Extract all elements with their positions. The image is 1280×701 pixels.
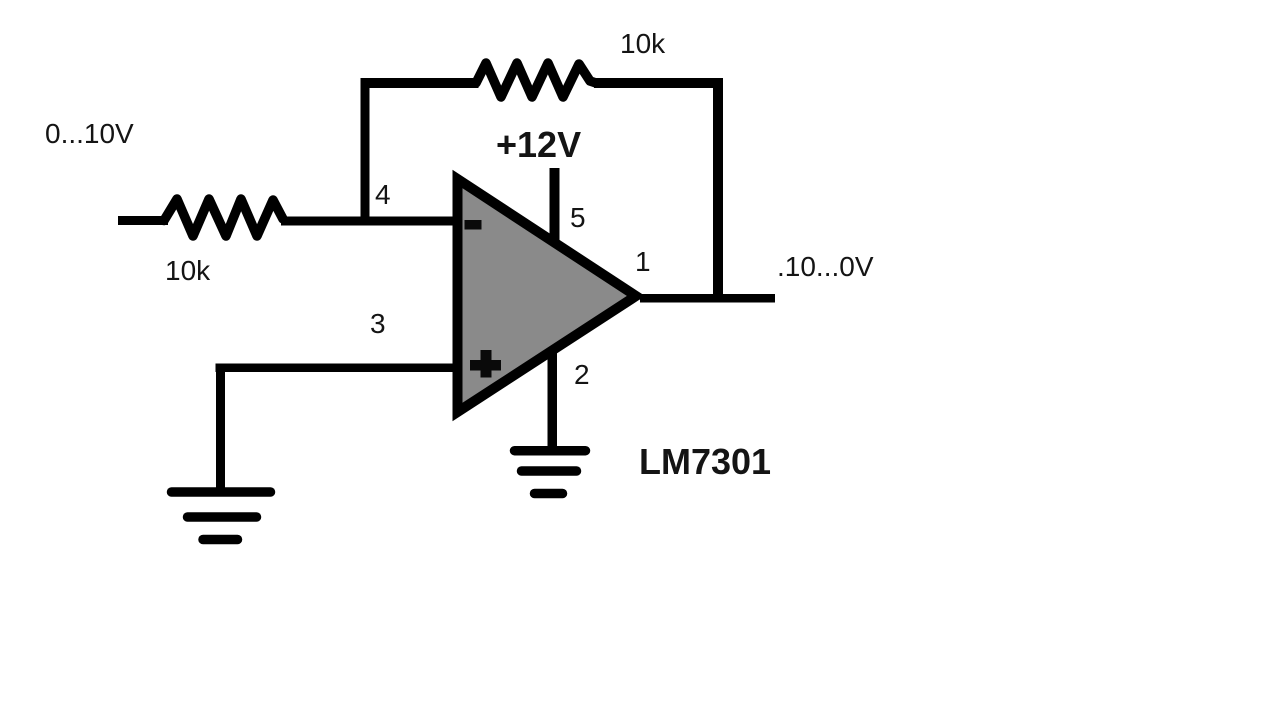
op-amp non-inverting input plus symbol — [470, 360, 501, 371]
resistor R2 10k feedback zigzag — [476, 63, 596, 97]
svg-text:4: 4 — [375, 179, 391, 210]
wire: feedback top right segment — [594, 78, 723, 88]
op-amp U1 LM7301 triangle body — [458, 179, 637, 412]
svg-text:5: 5 — [570, 202, 586, 233]
op-amp inverting input minus symbol — [465, 220, 482, 230]
wire: input left segment — [118, 216, 168, 225]
wire: pin 3 down to ground — [216, 364, 225, 488]
svg-text:+12V: +12V — [496, 124, 581, 165]
wire: feedback right vertical — [713, 78, 723, 302]
svg-text:0...10V: 0...10V — [45, 118, 134, 149]
svg-text:3: 3 — [370, 308, 386, 339]
svg-text:10k: 10k — [620, 28, 666, 59]
ground symbol at op-amp pin 2 — [515, 451, 586, 494]
wire: R1 to op-amp inverting input (pin 4 net) — [281, 217, 456, 226]
wire: pin 2 to ground — [548, 353, 558, 447]
svg-text:.10...0V: .10...0V — [777, 251, 874, 282]
wire: feedback top left segment — [361, 78, 479, 88]
resistor R1 10k input zigzag — [164, 199, 283, 236]
wire: feedback left vertical — [361, 80, 370, 225]
svg-text:1: 1 — [635, 246, 651, 277]
ground symbol at pin 3 — [172, 492, 271, 540]
wire: output from pin 1 — [640, 294, 775, 303]
svg-text:LM7301: LM7301 — [639, 441, 771, 482]
wire: pin 5 power lead — [550, 168, 560, 242]
svg-text:2: 2 — [574, 359, 590, 390]
wire: pin 3 horizontal — [216, 364, 455, 373]
svg-text:10k: 10k — [165, 255, 211, 286]
